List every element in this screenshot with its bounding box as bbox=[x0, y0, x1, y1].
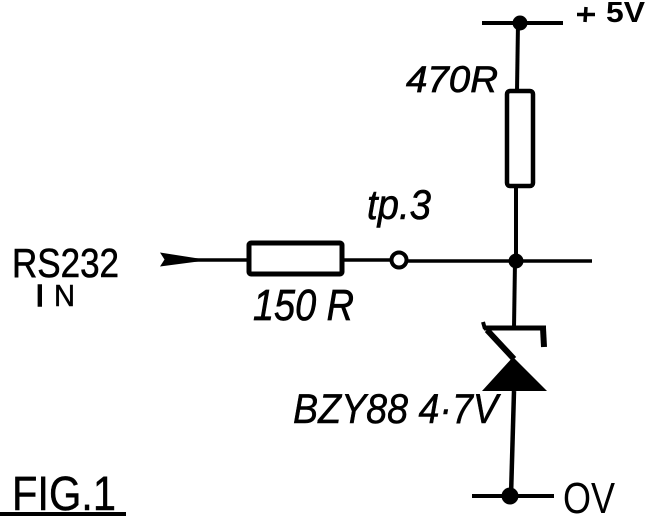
wire: resistor 150R to test point tp.3 bbox=[342, 258, 391, 262]
node: junction dot at tp.3 rail bbox=[509, 254, 524, 269]
wire: resistor 470R to node tp.3 bbox=[514, 186, 518, 261]
wire: node to zener cathode bbox=[514, 261, 515, 328]
wire: node to right stub bbox=[523, 259, 592, 263]
test point tp.3 circle bbox=[392, 253, 407, 268]
node: 0V junction dot bbox=[502, 488, 519, 505]
wire: zener anode to 0V rail bbox=[511, 391, 514, 496]
wire: 0V bottom rail bbox=[472, 494, 554, 498]
zener diode diagonal stroke bbox=[487, 330, 514, 359]
svg-text:5V: 5V bbox=[606, 0, 646, 29]
svg-text:150 R: 150 R bbox=[253, 281, 354, 330]
svg-text:I: I bbox=[36, 278, 45, 313]
arrow: RS232 input bbox=[160, 253, 200, 267]
label +5V plus sign bbox=[577, 13, 595, 17]
zener diode cathode right hook bbox=[543, 328, 544, 347]
wire: +5V rail to resistor 470R bbox=[517, 23, 518, 91]
svg-text:OV: OV bbox=[563, 474, 616, 522]
svg-text:BZY88 4·7V: BZY88 4·7V bbox=[293, 385, 502, 432]
zener diode cathode bar bbox=[484, 326, 546, 331]
wire: test point to node bbox=[406, 259, 509, 263]
node: +5V junction dot bbox=[513, 16, 528, 31]
wire: arrow to resistor 150R bbox=[187, 258, 249, 262]
svg-text:470R: 470R bbox=[406, 59, 498, 100]
zener diode cathode left tick bbox=[483, 322, 485, 329]
svg-text:tp.3: tp.3 bbox=[367, 181, 431, 228]
FIG.1 underline bbox=[0, 512, 126, 516]
zener diode anode triangle bbox=[482, 357, 547, 391]
svg-text:N: N bbox=[54, 278, 75, 313]
resistor 470R body bbox=[507, 91, 533, 186]
resistor 150R body bbox=[249, 243, 342, 274]
wire: +5V top rail bbox=[482, 21, 563, 25]
